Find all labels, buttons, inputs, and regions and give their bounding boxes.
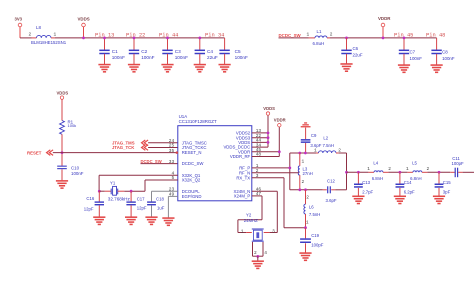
svg-text:2.7pF: 2.7pF xyxy=(362,190,373,195)
svg-text:6.8uH: 6.8uH xyxy=(313,41,325,46)
svg-text:100nF: 100nF xyxy=(175,55,188,60)
svg-text:2: 2 xyxy=(338,147,341,153)
svg-text:RESET_N: RESET_N xyxy=(182,150,202,155)
svg-text:27nH: 27nH xyxy=(303,171,313,176)
svg-text:22uF: 22uF xyxy=(207,55,218,60)
svg-text:Pin 34: Pin 34 xyxy=(205,33,224,39)
svg-text:1: 1 xyxy=(406,166,409,172)
svg-text:C3: C3 xyxy=(175,49,181,54)
svg-text:1: 1 xyxy=(307,32,310,38)
svg-text:Y1: Y1 xyxy=(110,181,116,186)
svg-text:1: 1 xyxy=(302,158,305,164)
svg-text:C7: C7 xyxy=(410,49,416,54)
svg-text:100nF: 100nF xyxy=(410,56,423,61)
svg-text:100k: 100k xyxy=(68,123,77,128)
svg-text:2: 2 xyxy=(29,32,32,38)
svg-text:2: 2 xyxy=(427,166,430,172)
svg-text:100nF: 100nF xyxy=(71,171,84,176)
svg-text:VDDS: VDDS xyxy=(57,91,69,96)
svg-text:EGP/GND: EGP/GND xyxy=(182,194,202,199)
svg-text:3.6pF: 3.6pF xyxy=(326,198,337,203)
svg-text:VDDR_RF: VDDR_RF xyxy=(230,154,251,159)
svg-text:C15: C15 xyxy=(443,180,451,185)
svg-text:100pF: 100pF xyxy=(311,243,324,248)
svg-text:C1: C1 xyxy=(112,49,118,54)
svg-text:C12: C12 xyxy=(327,178,335,183)
svg-text:2: 2 xyxy=(388,166,391,172)
svg-text:X32K_Q2: X32K_Q2 xyxy=(182,178,201,183)
svg-text:3.6pF: 3.6pF xyxy=(310,143,321,148)
svg-text:L8: L8 xyxy=(36,25,41,30)
svg-text:VDDS: VDDS xyxy=(78,17,90,22)
svg-text:24MHZ: 24MHZ xyxy=(244,218,258,223)
svg-text:4: 4 xyxy=(264,250,267,256)
svg-text:12pF: 12pF xyxy=(84,206,94,211)
svg-text:3: 3 xyxy=(272,229,275,235)
svg-text:3V3: 3V3 xyxy=(15,16,23,21)
svg-text:C17: C17 xyxy=(137,197,145,202)
svg-text:L6: L6 xyxy=(309,205,314,210)
svg-text:C14: C14 xyxy=(404,180,412,185)
svg-text:6.8nH: 6.8nH xyxy=(372,176,383,181)
svg-text:CC1310F128RGZT: CC1310F128RGZT xyxy=(179,119,217,124)
svg-text:Pin 48: Pin 48 xyxy=(426,33,445,39)
svg-text:1: 1 xyxy=(314,147,317,153)
svg-text:100nF: 100nF xyxy=(442,56,455,61)
svg-text:RX_TX: RX_TX xyxy=(236,175,250,180)
svg-text:VDDR: VDDR xyxy=(378,16,391,21)
svg-text:C13: C13 xyxy=(362,180,370,185)
svg-text:3pF: 3pF xyxy=(443,190,451,195)
svg-text:C8: C8 xyxy=(442,49,448,54)
svg-text:2: 2 xyxy=(254,250,257,256)
svg-text:C9: C9 xyxy=(311,133,317,138)
svg-text:7.5nH: 7.5nH xyxy=(323,143,334,148)
svg-text:BLM18HE152SN1: BLM18HE152SN1 xyxy=(31,40,67,45)
svg-text:1: 1 xyxy=(241,229,244,235)
svg-text:12pF: 12pF xyxy=(137,205,147,210)
svg-text:1: 1 xyxy=(367,166,370,172)
svg-text:L5: L5 xyxy=(412,161,417,166)
svg-text:U1A: U1A xyxy=(179,114,188,119)
svg-text:2: 2 xyxy=(302,179,305,185)
svg-text:Pin 22: Pin 22 xyxy=(126,33,145,39)
svg-text:DCDC_SW: DCDC_SW xyxy=(182,161,205,166)
svg-text:1: 1 xyxy=(54,32,57,38)
svg-text:C2: C2 xyxy=(141,49,147,54)
svg-text:RESET: RESET xyxy=(27,150,42,155)
svg-text:35: 35 xyxy=(169,148,175,154)
svg-text:100nF: 100nF xyxy=(141,55,154,60)
svg-text:1: 1 xyxy=(306,219,309,225)
svg-text:C10: C10 xyxy=(71,166,80,171)
svg-text:C19: C19 xyxy=(311,233,319,238)
svg-text:22uF: 22uF xyxy=(353,52,363,57)
svg-text:X24M_P: X24M_P xyxy=(234,194,251,199)
svg-text:L4: L4 xyxy=(373,161,378,166)
svg-text:VDDR: VDDR xyxy=(274,117,286,122)
svg-text:2: 2 xyxy=(306,195,309,201)
svg-text:C6: C6 xyxy=(353,46,359,51)
svg-text:25: 25 xyxy=(169,143,175,149)
svg-text:C4: C4 xyxy=(207,49,213,54)
svg-text:100nF: 100nF xyxy=(235,55,248,60)
svg-text:6.2pF: 6.2pF xyxy=(404,190,415,195)
svg-text:1uF: 1uF xyxy=(157,205,165,210)
svg-text:32.768kHz: 32.768kHz xyxy=(108,197,131,202)
svg-text:L1: L1 xyxy=(317,29,322,34)
svg-text:C5: C5 xyxy=(235,49,241,54)
svg-text:C16: C16 xyxy=(86,196,94,201)
svg-text:6.8nH: 6.8nH xyxy=(410,176,421,181)
svg-text:33: 33 xyxy=(169,159,175,165)
svg-text:C18: C18 xyxy=(156,197,164,202)
svg-text:2: 2 xyxy=(330,32,333,38)
svg-text:L2: L2 xyxy=(323,135,328,140)
svg-text:JTAG_TCK: JTAG_TCK xyxy=(112,145,135,150)
svg-text:7.5nH: 7.5nH xyxy=(309,212,320,217)
svg-text:100pF: 100pF xyxy=(452,161,465,166)
svg-text:VDDS: VDDS xyxy=(263,106,275,111)
svg-text:100nF: 100nF xyxy=(112,55,125,60)
